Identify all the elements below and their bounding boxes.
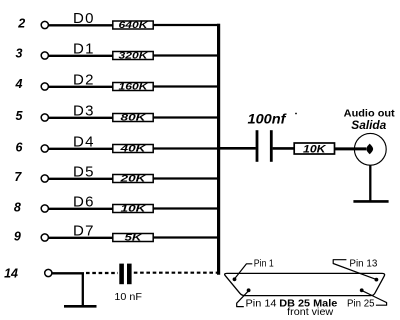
dashed wire C2 to bus — [134, 272, 218, 274]
svg-text:8: 8 — [14, 200, 21, 214]
wire R2 to bus — [153, 54, 220, 56]
svg-text:D1: D1 — [73, 41, 94, 58]
svg-text:D4: D4 — [73, 134, 94, 151]
stray mark — [295, 113, 297, 115]
svg-text:D5: D5 — [73, 164, 94, 181]
leader Pin 25 — [362, 291, 387, 306]
resistor R7 10K — [113, 204, 153, 215]
ground at pin14 — [64, 305, 97, 308]
svg-text:6: 6 — [16, 141, 24, 155]
capacitor C1 100nf — [248, 111, 287, 162]
resistor R9 10K — [294, 143, 334, 155]
svg-text:7: 7 — [14, 170, 22, 184]
svg-text:3: 3 — [16, 47, 23, 61]
svg-text:5: 5 — [16, 109, 24, 123]
svg-text:Pin 13: Pin 13 — [349, 258, 377, 269]
DB25 pin25 dot — [360, 288, 364, 292]
svg-text:10K: 10K — [303, 143, 327, 155]
DB25 pin1 dot — [233, 277, 237, 281]
svg-text:9: 9 — [14, 230, 21, 244]
svg-text:front view: front view — [287, 307, 334, 318]
pin 8 terminal — [41, 205, 48, 212]
dashed wire pin14 to C2 — [86, 272, 118, 274]
wire R1 to bus — [153, 24, 220, 26]
svg-text:5K: 5K — [125, 233, 144, 244]
svg-text:Pin 1: Pin 1 — [254, 259, 274, 270]
resistor R6 20K — [113, 174, 153, 185]
pin 7 terminal — [41, 175, 48, 182]
pin 4 terminal — [41, 83, 48, 90]
resistor R2 320K — [113, 51, 153, 62]
audio jack J1 — [354, 133, 386, 165]
svg-text:Pin 25: Pin 25 — [347, 299, 375, 310]
wire pin4 to R3 — [48, 86, 113, 88]
resistor R1 640K — [113, 20, 153, 31]
svg-text:640K: 640K — [119, 20, 149, 31]
svg-text:14: 14 — [4, 266, 18, 280]
svg-text:Pin 14: Pin 14 — [246, 299, 277, 310]
resistor R4 80K — [113, 113, 153, 124]
wire pin8 to R7 — [48, 208, 113, 210]
pin 2 terminal — [41, 21, 48, 28]
wire pin3 to R2 — [48, 55, 113, 57]
svg-text:D3: D3 — [73, 103, 94, 120]
pin 3 terminal — [41, 52, 48, 59]
resistor R8 5K — [113, 233, 153, 244]
DB25 pin13 dot — [375, 278, 379, 282]
svg-text:D6: D6 — [73, 194, 94, 211]
svg-text:10 nF: 10 nF — [114, 291, 142, 303]
svg-text:10K: 10K — [121, 204, 148, 215]
wire R7 to bus — [153, 207, 220, 209]
summing bus wire — [217, 24, 220, 275]
svg-text:2: 2 — [17, 16, 25, 30]
wire R3 to bus — [153, 85, 220, 87]
svg-text:80K: 80K — [121, 113, 148, 124]
svg-text:160K: 160K — [119, 82, 149, 93]
wire pin9 to R8 — [48, 237, 113, 239]
wire R9 to jack J1 — [335, 147, 367, 150]
svg-text:D0: D0 — [73, 10, 94, 27]
wire jack to ground — [369, 165, 371, 201]
wire C1 to R9 — [273, 147, 295, 150]
svg-text:D2: D2 — [73, 72, 94, 89]
DB25 connector body — [225, 273, 385, 295]
wire R5 to bus — [153, 147, 220, 149]
wire pin6 to R5 — [48, 148, 113, 150]
wire pin14 — [52, 272, 84, 274]
wire R6 to bus — [153, 177, 220, 179]
wire R8 to bus — [153, 236, 220, 238]
resistor R5 40K — [113, 144, 153, 155]
pin 9 terminal — [41, 234, 48, 241]
svg-text:Salida: Salida — [351, 118, 386, 132]
svg-text:100nf: 100nf — [248, 111, 287, 127]
pin 6 terminal — [41, 145, 48, 152]
resistor R3 160K — [113, 82, 153, 93]
svg-text:320K: 320K — [119, 51, 149, 62]
pin 14 terminal — [45, 269, 52, 276]
capacitor C2 10nF — [114, 264, 142, 303]
svg-text:D7: D7 — [73, 223, 94, 240]
DB25 pin14 dot — [247, 288, 251, 292]
leader Pin 13 — [333, 260, 376, 280]
ground at jack — [353, 200, 388, 203]
wire bus to C1 — [220, 147, 256, 150]
wire down to ground — [82, 273, 84, 305]
leader Pin 14 — [237, 291, 249, 307]
pin 5 terminal — [41, 114, 48, 121]
svg-text:20K: 20K — [119, 174, 147, 185]
svg-text:40K: 40K — [119, 144, 147, 155]
wire pin5 to R4 — [48, 117, 113, 119]
wire R4 to bus — [153, 116, 220, 118]
svg-text:4: 4 — [15, 77, 23, 91]
wire pin7 to R6 — [48, 178, 113, 180]
wire pin2 to R1 — [48, 24, 113, 26]
leader Pin 1 — [235, 264, 253, 279]
